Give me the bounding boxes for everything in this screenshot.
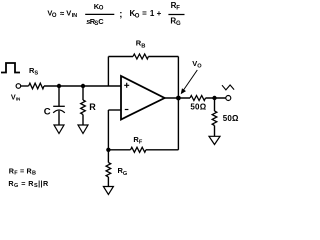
equation Ko = 1 + Rf/Rg	[130, 1, 185, 27]
resistor RS	[29, 83, 44, 89]
input pulse waveform symbol	[1, 63, 20, 73]
wire RB left segment	[108, 56, 133, 58]
svg-text:50Ω: 50Ω	[223, 114, 239, 123]
ground (under RG)	[103, 187, 113, 195]
node C (feedback junction)	[106, 148, 110, 152]
op-amp U1	[121, 76, 165, 120]
svg-text:G: G	[176, 21, 181, 27]
svg-text:50Ω: 50Ω	[190, 103, 206, 112]
arrow Vo pointer	[181, 70, 198, 94]
wire + input up to RB loop	[107, 57, 109, 87]
resistor 50 ohm shunt	[212, 111, 217, 126]
svg-text:O: O	[52, 13, 57, 19]
svg-text:≈: ≈	[60, 9, 65, 18]
output waveform symbol	[222, 85, 234, 90]
svg-text:O: O	[99, 6, 104, 12]
resistor R	[81, 100, 86, 115]
svg-text:F: F	[176, 6, 180, 12]
wire node C to Rg	[107, 150, 109, 163]
wire shunt to ground	[214, 126, 216, 137]
wire riser to output node	[177, 98, 179, 150]
wire Vin to Rs	[21, 85, 29, 87]
wire R to ground	[82, 115, 84, 126]
output terminal	[226, 96, 231, 101]
wire - input down to Rf node	[107, 110, 109, 150]
wire RB down to output	[177, 57, 179, 99]
resistor RF	[131, 147, 146, 152]
svg-text:C: C	[44, 106, 51, 117]
svg-text:+: +	[157, 9, 162, 18]
svg-text:IN: IN	[72, 13, 78, 19]
svg-text:C: C	[98, 17, 104, 26]
svg-text:O: O	[135, 13, 140, 19]
wire Rf to output riser	[146, 149, 179, 151]
wire node D down	[214, 98, 216, 111]
resistor 50 ohm series	[190, 96, 206, 101]
equation Vo ≈ Vin Ko/(sRsC)	[47, 2, 122, 27]
wire Rs to opamp	[44, 85, 121, 87]
input terminal Vin	[16, 84, 21, 89]
resistor RG	[106, 163, 111, 178]
wire Rg to ground	[107, 177, 109, 187]
svg-text:V: V	[66, 9, 71, 18]
wire RB right segment	[148, 56, 178, 58]
node D (output tee)	[212, 96, 216, 100]
node Vo (output)	[176, 96, 181, 101]
wire node A to C	[58, 86, 60, 106]
svg-text:R: R	[89, 102, 96, 112]
wire C to ground	[58, 111, 60, 125]
svg-text:=: =	[142, 9, 147, 18]
node A (C junction)	[57, 84, 61, 88]
wire node C to Rf	[108, 149, 130, 151]
wire node B to R	[82, 86, 84, 100]
wire opamp output	[165, 97, 190, 99]
svg-text:;: ;	[119, 9, 122, 20]
svg-text:1: 1	[150, 9, 155, 18]
capacitor C	[53, 106, 65, 113]
ground (under shunt 50)	[209, 136, 220, 144]
wire - input left	[108, 109, 121, 111]
ground (under C)	[54, 125, 64, 134]
resistor RB	[133, 54, 148, 59]
ground (under R)	[78, 125, 88, 134]
node B (R junction)	[81, 84, 85, 88]
wire to output terminal	[206, 97, 226, 99]
